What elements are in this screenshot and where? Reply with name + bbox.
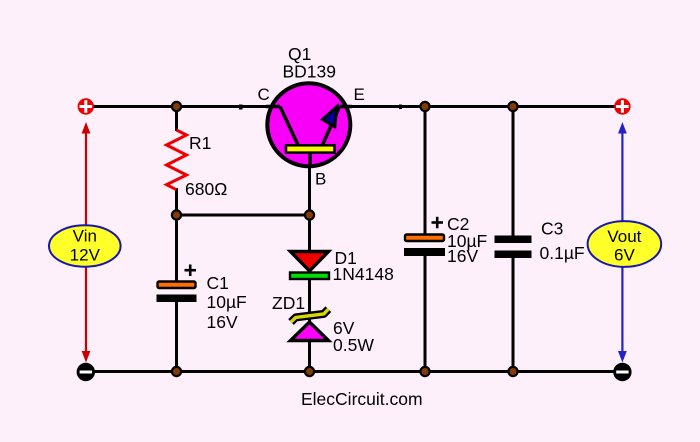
diode D1 [290, 252, 329, 280]
junction node bottom C2 [420, 367, 429, 376]
wire C1 bottom lead [175, 301, 178, 372]
svg-text:1N4148: 1N4148 [333, 264, 394, 284]
svg-text:16V: 16V [207, 312, 238, 332]
junction node mid R1/C1 [172, 210, 181, 219]
junction node top C2 [420, 102, 429, 111]
Vin arrow lower [82, 268, 91, 363]
wire bottom rail [94, 370, 614, 373]
terminal plus input [78, 98, 94, 114]
svg-text:6V: 6V [614, 246, 635, 265]
svg-text:0.5W: 0.5W [333, 335, 374, 355]
wire middle rail R1 bottom to base node [177, 214, 310, 217]
svg-text:C3: C3 [541, 219, 563, 239]
Vin arrow upper [82, 122, 91, 226]
capacitor C3 [495, 236, 532, 259]
svg-text:680Ω: 680Ω [185, 179, 227, 199]
wire R1 top lead [175, 107, 178, 132]
svg-text:R1: R1 [189, 133, 211, 153]
wire tick artifact left [239, 105, 243, 110]
resistor R1 [167, 130, 187, 190]
Vin label ellipse [49, 225, 121, 266]
svg-text:16V: 16V [447, 246, 478, 266]
wire C1 top lead [175, 215, 178, 282]
terminal minus input [77, 363, 95, 381]
wire R1 bottom lead [175, 188, 178, 215]
svg-text:C1: C1 [207, 273, 229, 293]
junction node bottom C1 [172, 367, 181, 376]
wire tick artifact right [399, 105, 402, 110]
transistor Q1 [266, 83, 352, 168]
wire base column Q1 base to D1/ZD1 to bottom rail [308, 150, 311, 253]
wire C2 top lead [424, 107, 427, 236]
svg-text:B: B [315, 170, 326, 189]
wire top rail [93, 105, 615, 108]
svg-text:12V: 12V [70, 246, 101, 265]
capacitor C2 [404, 217, 445, 256]
junction node mid base/D1 [305, 210, 314, 219]
svg-text:Vout: Vout [607, 227, 641, 246]
terminal plus output [614, 98, 630, 114]
terminal minus output [613, 363, 631, 381]
Vout arrow lower [618, 268, 627, 363]
svg-text:E: E [354, 85, 365, 104]
wire C2 bottom lead [424, 255, 427, 372]
junction node top C3 [508, 102, 517, 111]
junction node bottom ZD1 [305, 367, 314, 376]
svg-text:0.1µF: 0.1µF [540, 243, 585, 263]
Vout arrow upper [618, 122, 627, 222]
zener ZD1 [291, 309, 329, 340]
svg-text:ZD1: ZD1 [272, 293, 305, 313]
wire C3 top lead [512, 107, 515, 238]
Vout label ellipse [588, 221, 662, 267]
svg-text:10µF: 10µF [207, 292, 247, 312]
svg-text:ElecCircuit.com: ElecCircuit.com [301, 389, 423, 409]
capacitor C1 [157, 265, 197, 303]
svg-text:BD139: BD139 [283, 62, 337, 82]
junction node bottom C3 [508, 367, 517, 376]
wire C3 bottom lead [512, 256, 515, 372]
svg-text:C: C [258, 85, 270, 104]
junction node top R1 [172, 102, 181, 111]
svg-text:Vin: Vin [73, 227, 97, 246]
